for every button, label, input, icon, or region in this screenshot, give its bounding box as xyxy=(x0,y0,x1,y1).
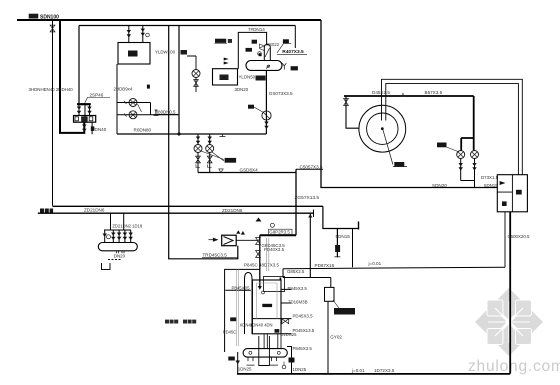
inner light lines xyxy=(257,283,278,319)
svg-text:7D16M3B: 7D16M3B xyxy=(288,299,308,304)
svg-text:DN20: DN20 xyxy=(114,253,126,258)
svg-text:DN40: DN40 xyxy=(95,127,107,132)
manifold box xyxy=(74,116,96,123)
vessel outlet GS073X3.5 xyxy=(266,70,268,134)
softener feed drop 2 xyxy=(142,26,144,43)
pipe end bar y213 xyxy=(313,210,315,218)
svg-text:PD45C: PD45C xyxy=(223,330,237,335)
enclosure room2 left edge xyxy=(178,26,180,135)
svg-text:3HDNHEN40 2HDH40: 3HDNHEN40 2HDH40 xyxy=(29,87,74,92)
svg-text:GS073X3.5: GS073X3.5 xyxy=(269,91,293,96)
svg-text:D1DN25: D1DN25 xyxy=(280,332,297,337)
svg-text:1DN25: 1DN25 xyxy=(293,367,307,372)
svg-text:PD40X3.5: PD40X3.5 xyxy=(264,247,285,252)
nested control rect xyxy=(264,277,285,292)
manifold feed drops xyxy=(79,104,90,118)
under-tank U pipe xyxy=(259,336,270,366)
watermark logo xyxy=(475,288,543,356)
leader lines to pump label xyxy=(201,151,224,161)
relief valve on elbow pipe xyxy=(256,218,262,222)
DN40 drain valve xyxy=(91,126,95,130)
svg-text:P845X3.5: P845X3.5 xyxy=(288,286,308,291)
svg-text:B57X3.5: B57X3.5 xyxy=(425,90,443,95)
expansion pipe pair to control unit xyxy=(382,79,523,174)
drops into lower drum xyxy=(264,334,281,349)
pipe ZG57X13.5 vertical xyxy=(295,169,297,235)
svg-text:PD67X16: PD67X16 xyxy=(315,263,335,268)
right side taps xyxy=(281,289,292,346)
svg-text:5DN15: 5DN15 xyxy=(336,234,351,239)
label circulating pumps xyxy=(225,158,237,163)
tee symbol below y134 xyxy=(220,134,226,136)
svg-text:P845X05: P845X05 xyxy=(232,286,251,291)
pipe: elbow down and right to SDN15 tee xyxy=(323,206,359,228)
drop into complex xyxy=(259,235,261,286)
svg-text:j=0.01: j=0.01 xyxy=(351,368,365,373)
down pipes from control unit xyxy=(504,212,506,267)
svg-text:ZG57X13.5: ZG57X13.5 xyxy=(295,195,320,201)
svg-text:R80DN0.5: R80DN0.5 xyxy=(155,109,176,114)
enclosure room 1+2 top edge xyxy=(79,25,295,27)
svg-text:G85X2.5: G85X2.5 xyxy=(287,269,305,274)
svg-text:j=0.01: j=0.01 xyxy=(368,261,382,266)
pipe: water feed line y213 xyxy=(38,212,314,214)
svg-text:GY02: GY02 xyxy=(330,334,342,339)
safety stack on vessel xyxy=(264,44,270,60)
floor drain channel xyxy=(108,259,121,261)
tank legs xyxy=(117,251,125,254)
label 51DN25 xyxy=(215,39,226,43)
svg-text:G8P2R3.5: G8P2R3.5 xyxy=(269,230,290,235)
svg-text:5DN15: 5DN15 xyxy=(484,183,498,188)
softener outlet drop xyxy=(116,64,118,134)
pipe GSD8X4 pump discharge header xyxy=(198,172,296,174)
svg-text:D73X1.5: D73X1.5 xyxy=(481,175,499,180)
manifold outlet drops xyxy=(84,122,92,134)
pipe: main riser to SDN20 line xyxy=(321,20,497,188)
tank fill branches xyxy=(111,213,124,230)
pump room labels xyxy=(165,320,196,324)
pump E1 suction drops from y134 xyxy=(198,134,210,145)
svg-text:ZD21DN2 1D18: ZD21DN2 1D18 xyxy=(112,224,142,229)
elbow to boiler complex xyxy=(260,234,296,236)
pipe: thick left riser xyxy=(60,20,84,133)
pipe: horizontal line ZD21DN6 upper xyxy=(53,205,323,207)
meter bypass branches xyxy=(117,103,179,115)
svg-text:ZD21DN6: ZD21DN6 xyxy=(222,208,243,213)
heater element dark bar xyxy=(262,304,272,307)
lower drum (pill) xyxy=(243,349,287,358)
valves bottom xyxy=(289,358,295,363)
svg-text:SDN100: SDN100 xyxy=(40,15,59,21)
svg-text:1DN25: 1DN25 xyxy=(238,367,252,372)
circulation pumps pair xyxy=(194,145,202,153)
softener tank box xyxy=(118,43,150,65)
makeup stub to riser xyxy=(296,168,323,170)
svg-text:C500X20.5: C500X20.5 xyxy=(508,234,531,239)
svg-text:ZD21DN6: ZD21DN6 xyxy=(84,207,105,212)
drain wye on header xyxy=(219,169,223,173)
supply main j=0.01 xyxy=(283,267,505,269)
bypass meters xyxy=(129,99,137,107)
day tank box xyxy=(213,69,238,85)
vessel right cap drain xyxy=(282,63,286,70)
svg-text:C5057X3.5: C5057X3.5 xyxy=(300,164,323,169)
svg-text:7#DN14: 7#DN14 xyxy=(248,27,265,32)
riser from feed line end xyxy=(309,213,311,277)
tank fill header xyxy=(104,229,131,231)
svg-text:1D72X3.5: 1D72X3.5 xyxy=(374,368,395,373)
expansion vessel bullet xyxy=(245,273,253,335)
tank feed elbow xyxy=(346,96,360,128)
svg-text:GSD8X4: GSD8X4 xyxy=(240,167,259,172)
manifold inner cells xyxy=(75,117,93,121)
enclosure room2 right drop xyxy=(294,26,296,49)
underground water tank (pill) xyxy=(98,243,137,251)
svg-text:P845C 48D7X3.5: P845C 48D7X3.5 xyxy=(244,263,280,268)
top connection line xyxy=(279,278,281,281)
relief riser with arrow xyxy=(265,70,267,134)
enclosure left/top xyxy=(225,269,260,352)
pressure pumps xyxy=(457,151,465,159)
pipe loop vessel to day tank 7#DN14 xyxy=(238,32,266,68)
vessel internal mark xyxy=(266,65,270,69)
hot water storage vessel (pill) xyxy=(246,61,282,71)
softener feed drop 1 xyxy=(128,26,130,43)
circulating pump box GY02 xyxy=(325,287,335,301)
room2: inner pump riser xyxy=(187,56,196,92)
drain pit xyxy=(102,263,111,270)
tank inlet drops xyxy=(105,230,131,243)
manifold header bar xyxy=(77,103,91,105)
arrows pointing to tank xyxy=(224,58,229,61)
pipe end bar xyxy=(358,222,360,230)
labels top-left xyxy=(29,14,39,19)
svg-text:2HDB9x4: 2HDB9x4 xyxy=(114,87,133,92)
svg-text:YLDN50: YLDN50 xyxy=(239,75,256,80)
pressure pump feed xyxy=(461,96,474,150)
room2 inner pump xyxy=(192,70,200,78)
main tank box xyxy=(252,280,281,334)
svg-text:GS022: GS022 xyxy=(266,42,280,47)
pump discharge with valves xyxy=(198,153,210,173)
svg-text:3DN20: 3DN20 xyxy=(235,87,249,92)
level gauge flag xyxy=(283,39,289,43)
svg-text:SDN20: SDN20 xyxy=(432,183,447,188)
valve on left thin riser xyxy=(50,25,55,32)
pipe: drop to j=0.01 line xyxy=(352,229,354,268)
pressurization control unit box xyxy=(497,175,527,212)
feed arrow into complex xyxy=(258,286,262,290)
junction node at (179,134) xyxy=(177,132,180,135)
valve cluster left of stack xyxy=(246,48,253,52)
pump discharges xyxy=(461,159,475,188)
svg-text:2SP46: 2SP46 xyxy=(90,93,104,98)
pipe: drop to SDN15 valve xyxy=(336,229,338,258)
svg-text:TRD45C3.5: TRD45C3.5 xyxy=(203,252,228,257)
svg-text:R0DN80: R0DN80 xyxy=(134,128,152,133)
svg-text:YLDW100: YLDW100 xyxy=(155,50,176,55)
circulation supply line B57X3.5 xyxy=(344,95,474,97)
left drain drop xyxy=(237,352,239,374)
pipe: left thin riser xyxy=(52,20,54,206)
svg-text:zhulong.com: zhulong.com xyxy=(468,358,560,375)
svg-text:D45X2.5: D45X2.5 xyxy=(372,90,390,95)
enclosure room1 left edge xyxy=(78,26,80,104)
pipe R0DN80 horizontal y134 xyxy=(117,133,266,135)
inner feed line xyxy=(225,289,250,291)
svg-text:PD45X3.5: PD45X3.5 xyxy=(293,313,314,318)
bottom drain main xyxy=(237,373,510,375)
check arrows on feed drops xyxy=(127,30,131,38)
svg-text:1DN40 4DN: 1DN40 4DN xyxy=(250,323,273,328)
svg-text:P845X3.5: P845X3.5 xyxy=(293,346,313,351)
enclosure room1 right edge down to bottom distribution xyxy=(169,26,238,259)
pipe: city water main SDN100 xyxy=(17,19,321,21)
